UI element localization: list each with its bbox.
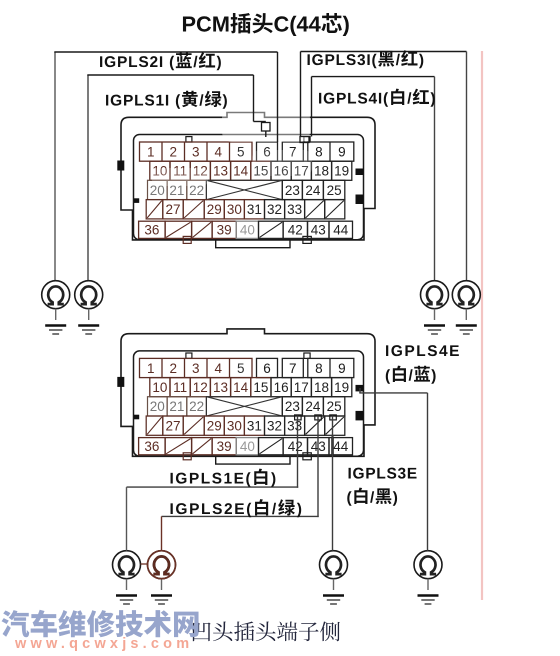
svg-text:www.qcwxjs.com: www.qcwxjs.com — [14, 636, 193, 652]
